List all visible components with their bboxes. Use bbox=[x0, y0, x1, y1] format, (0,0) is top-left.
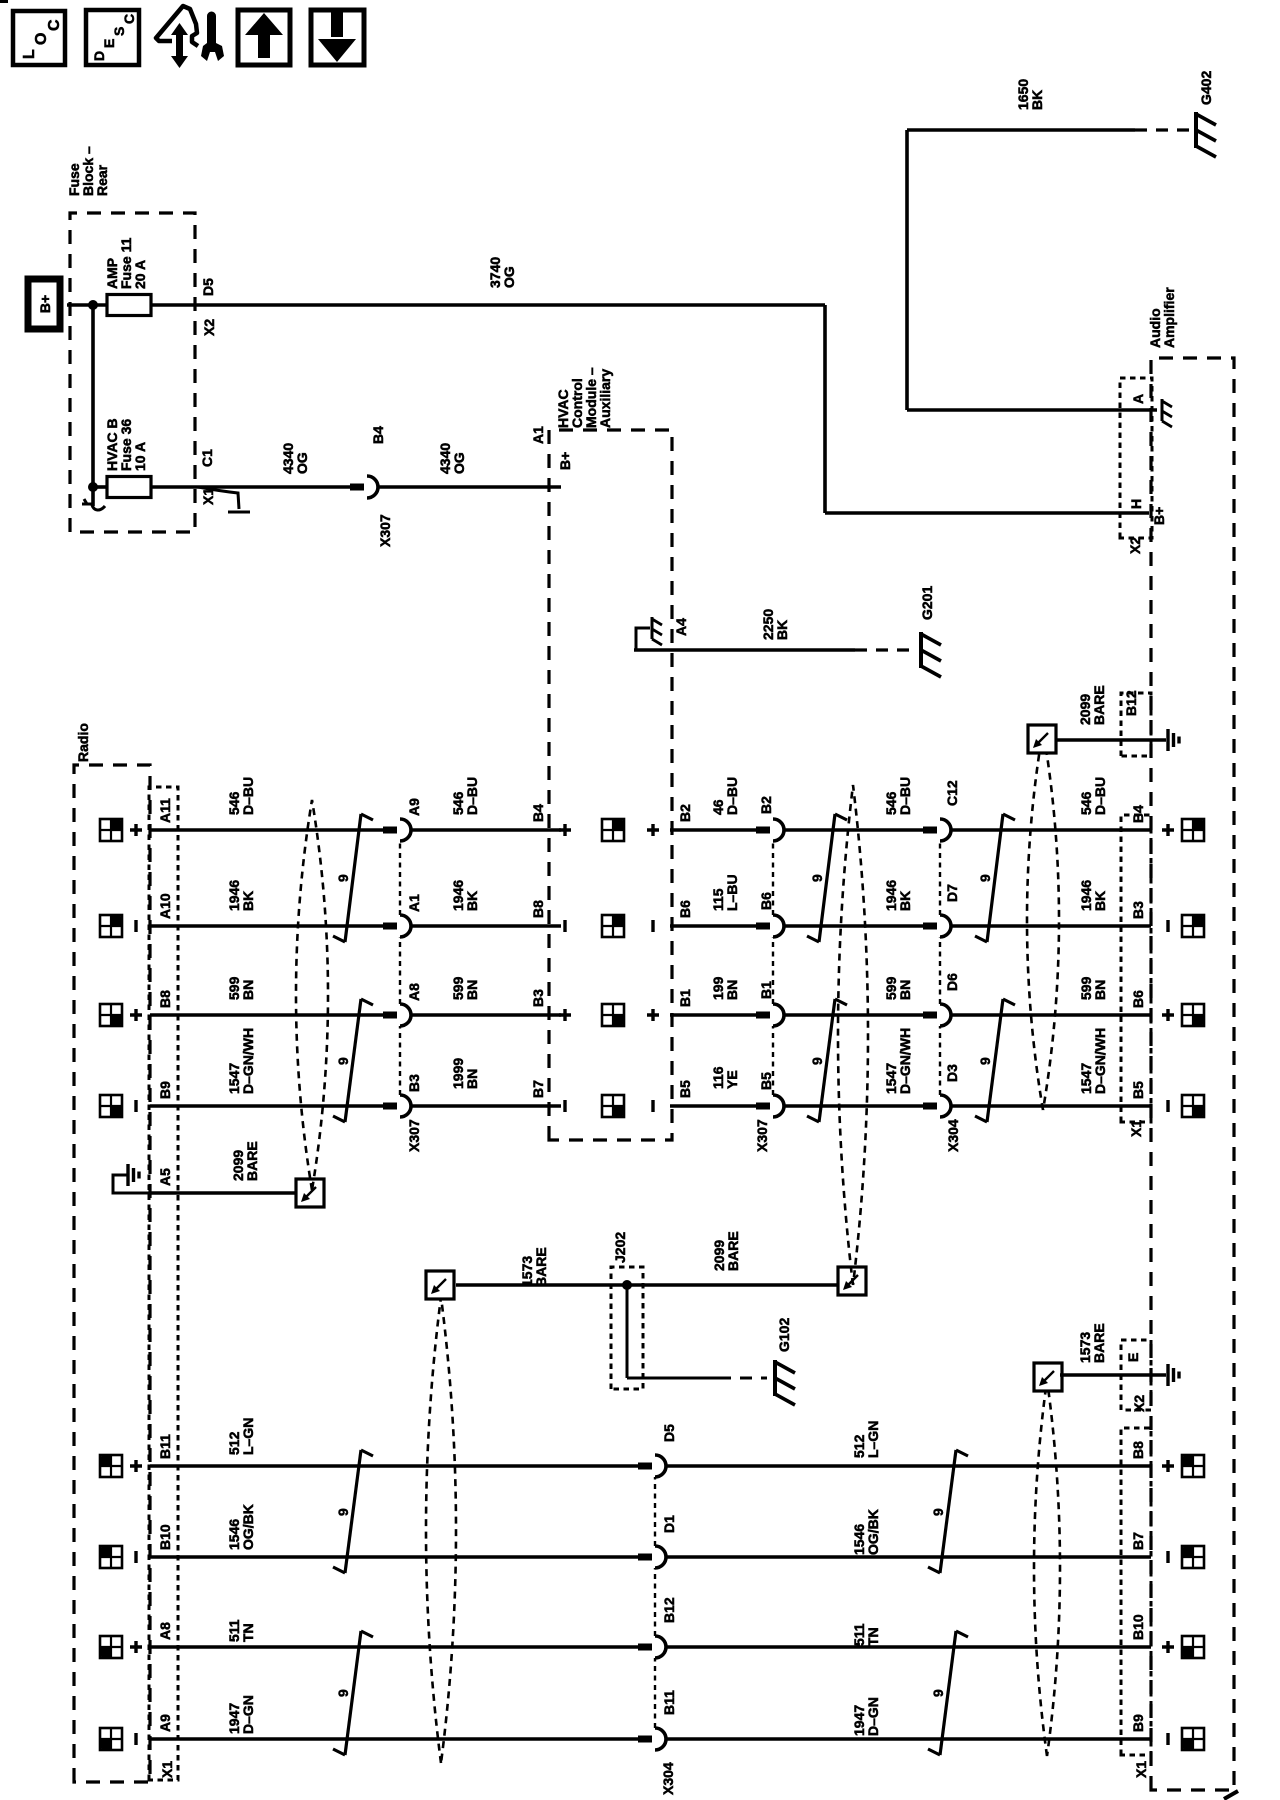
page corner mark bbox=[1224, 1791, 1238, 1799]
label wire 599 seg4 bbox=[883, 976, 913, 1000]
amp speaker icon A11 bbox=[1182, 819, 1204, 841]
connector X307 power bbox=[350, 476, 378, 498]
toolbar DESC icon box bbox=[86, 10, 139, 65]
svg-text:E: E bbox=[1125, 1353, 1141, 1362]
svg-text:X304: X304 bbox=[945, 1119, 961, 1152]
hvac A4 internal ground arm bbox=[636, 628, 650, 650]
radio speaker icon B9 bbox=[100, 1095, 122, 1117]
wire G102 tap dashed bbox=[719, 1377, 767, 1380]
label 1650 BK bbox=[1015, 79, 1045, 110]
svg-text:BARE: BARE bbox=[533, 1247, 549, 1287]
fuse HVAC B label bbox=[104, 418, 148, 471]
junction dot bus bbox=[88, 300, 98, 310]
label 2250 BK bbox=[760, 609, 790, 640]
twist 9 seg4 pair B2/B6 bbox=[807, 814, 847, 942]
label wire 599 seg1 bbox=[226, 976, 256, 1000]
shield splice S3 bbox=[838, 1267, 866, 1295]
toolbar adjust icon outline bbox=[156, 6, 198, 46]
label wire 1946 seg2 bbox=[450, 880, 480, 911]
wire J202 to S3 bbox=[627, 1283, 838, 1287]
connector X304b B12 bbox=[638, 1636, 666, 1658]
fuse block rear box bbox=[70, 213, 195, 532]
svg-text:X2: X2 bbox=[1127, 537, 1143, 554]
fusebox lead hook bbox=[198, 487, 239, 509]
wire 1573 BARE S2 to J202 bbox=[456, 1283, 627, 1287]
wire 1546 X304b to amp bbox=[666, 1555, 1151, 1559]
svg-text:X307: X307 bbox=[406, 1119, 422, 1152]
amp sign B11 bbox=[1162, 1460, 1174, 1472]
wire bus to HVAC fuse bbox=[93, 485, 107, 489]
amp speaker icon A8 bbox=[1182, 1636, 1204, 1658]
svg-text:BN: BN bbox=[1092, 980, 1108, 1000]
amp B12 earth ground bbox=[1168, 729, 1179, 751]
label wire 1546 segL bbox=[226, 1504, 256, 1550]
amp sign A11 bbox=[1162, 824, 1174, 836]
shield splice S5 bbox=[1034, 1363, 1062, 1391]
amp speaker icon B8 bbox=[1182, 1004, 1204, 1026]
label wire 46 seg3 bbox=[710, 777, 740, 815]
amp connector X1 left box bbox=[1121, 1428, 1151, 1755]
ground G102 symbol bbox=[775, 1360, 795, 1405]
wire 1947 A9 radio to X304b bbox=[150, 1737, 639, 1741]
amp speaker icon B10 bbox=[1182, 1546, 1204, 1568]
twist 9 seg5 pair C12/D7 bbox=[975, 814, 1015, 942]
radio sign B9 bbox=[134, 1100, 137, 1112]
wire 546 X307 to HVAC bbox=[411, 828, 561, 832]
wire 199 HVAC to X307b bbox=[670, 1013, 757, 1017]
label 2099 BARE S4 bbox=[1077, 685, 1107, 725]
wire 1546 B10 radio to X304b bbox=[150, 1555, 639, 1559]
svg-text:B5: B5 bbox=[758, 1072, 774, 1090]
connector X304a D3 bbox=[923, 1095, 951, 1117]
amp speaker icon B9 bbox=[1182, 1095, 1204, 1117]
hvac control module box bbox=[549, 430, 672, 1140]
ground G402 symbol bbox=[1196, 112, 1216, 157]
svg-text:D–BU: D–BU bbox=[1092, 777, 1108, 815]
amp pin A case ground bbox=[1162, 399, 1172, 427]
connector X304b link line bbox=[654, 1477, 656, 1728]
svg-text:B+: B+ bbox=[37, 295, 53, 313]
amp sign B8 bbox=[1162, 1009, 1174, 1021]
twist 9 seg4 pair B1/B5 bbox=[807, 999, 847, 1122]
svg-text:D–GN/WH: D–GN/WH bbox=[240, 1028, 256, 1094]
hvac sign top B9 bbox=[563, 1100, 566, 1112]
fuse block label bbox=[66, 146, 110, 196]
junction dot bus hvac bbox=[88, 482, 98, 492]
radio sign B8 bbox=[130, 1009, 142, 1021]
svg-text:BN: BN bbox=[724, 980, 740, 1000]
connector X304b B11 bbox=[638, 1728, 666, 1750]
svg-text:9: 9 bbox=[335, 1057, 351, 1065]
twist 9 segR pair B12/B11 bbox=[928, 1631, 968, 1755]
svg-text:B6: B6 bbox=[758, 892, 774, 910]
svg-text:L: L bbox=[21, 49, 38, 59]
amp connector X2-E box bbox=[1121, 1340, 1151, 1410]
wire 546 X307b to X304 bbox=[784, 828, 924, 832]
svg-text:X2: X2 bbox=[1131, 1395, 1147, 1412]
label wire 115 seg3 bbox=[710, 874, 740, 911]
svg-text:A8: A8 bbox=[157, 1622, 173, 1640]
wire 3740 OG to pin H bbox=[825, 511, 1149, 515]
connector X307a link line bbox=[399, 841, 401, 1095]
wire 512 B11 radio to X304b bbox=[150, 1464, 639, 1468]
wire 1650 BK dashed bbox=[1135, 128, 1189, 131]
svg-text:OG/BK: OG/BK bbox=[240, 1504, 256, 1550]
svg-text:D–BU: D–BU bbox=[724, 777, 740, 815]
svg-text:O: O bbox=[33, 33, 50, 45]
radio speaker icon B11 bbox=[100, 1455, 122, 1477]
connector X307b B1 bbox=[756, 1004, 784, 1026]
connector X307 A1 bbox=[383, 915, 411, 937]
amp sign A9 bbox=[1166, 1733, 1169, 1745]
svg-text:B5: B5 bbox=[677, 1080, 693, 1098]
wire 1573 BARE S5 to E bbox=[1060, 1373, 1166, 1377]
svg-text:9: 9 bbox=[809, 1057, 825, 1065]
ground G201 symbol bbox=[921, 632, 941, 677]
svg-text:D–BU: D–BU bbox=[897, 777, 913, 815]
svg-text:BARE: BARE bbox=[725, 1231, 741, 1271]
svg-text:9: 9 bbox=[809, 874, 825, 882]
svg-text:B8: B8 bbox=[1130, 1441, 1146, 1459]
wire 1650 BK solid bbox=[907, 128, 1135, 132]
bus wire bbox=[91, 305, 95, 506]
connector X304a link line bbox=[939, 841, 941, 1095]
shield lens E4 group A right bbox=[1027, 730, 1059, 1110]
svg-text:TN: TN bbox=[240, 1623, 256, 1642]
svg-text:A5: A5 bbox=[157, 1168, 173, 1186]
toolbar LOC icon box bbox=[13, 11, 65, 65]
label wire 546 seg4 bbox=[883, 777, 913, 815]
wire 46 HVAC to X307b bbox=[670, 828, 757, 832]
svg-text:Rear: Rear bbox=[94, 164, 110, 196]
label wire 546 seg1 bbox=[226, 777, 256, 815]
radio sign A9 bbox=[134, 1733, 137, 1745]
svg-text:X304: X304 bbox=[660, 1762, 676, 1795]
wire amp A to corner bbox=[907, 408, 1157, 412]
svg-text:YE: YE bbox=[724, 1070, 740, 1089]
svg-text:A4: A4 bbox=[673, 618, 689, 636]
radio speaker icon A9 bbox=[100, 1728, 122, 1750]
svg-text:D5: D5 bbox=[661, 1424, 677, 1442]
label 1573 BARE S2 bbox=[519, 1247, 549, 1287]
svg-text:B9: B9 bbox=[157, 1081, 173, 1099]
toolbar adjust icon arrow bbox=[171, 23, 188, 68]
wire 3740 OG horizontal bbox=[823, 305, 827, 513]
svg-text:B5: B5 bbox=[1130, 1081, 1146, 1099]
svg-text:B11: B11 bbox=[157, 1434, 173, 1459]
svg-text:B2: B2 bbox=[677, 804, 693, 822]
svg-text:B2: B2 bbox=[758, 796, 774, 814]
svg-text:L–GN: L–GN bbox=[865, 1421, 881, 1458]
radio box bbox=[74, 765, 150, 1782]
radio A5 earth ground bbox=[113, 1164, 150, 1193]
amp speaker icon A10 bbox=[1182, 915, 1204, 937]
svg-text:A9: A9 bbox=[157, 1714, 173, 1732]
svg-text:B12: B12 bbox=[661, 1597, 677, 1623]
shield lens E2 group B left bbox=[426, 1297, 456, 1763]
svg-text:C12: C12 bbox=[944, 780, 960, 806]
label wire 599 seg2 bbox=[450, 976, 480, 1000]
hvac speaker icon B9 bbox=[602, 1095, 624, 1117]
svg-text:D–GN/WH: D–GN/WH bbox=[897, 1028, 913, 1094]
amp connector B12 box bbox=[1121, 693, 1151, 756]
svg-text:D7: D7 bbox=[944, 884, 960, 902]
wire 2250 BK solid bbox=[672, 648, 855, 652]
amp speaker icon B11 bbox=[1182, 1455, 1204, 1477]
shield splice S2 bbox=[426, 1271, 454, 1299]
svg-text:B+: B+ bbox=[1151, 507, 1167, 525]
toolbar adjust icon wrench bbox=[201, 12, 224, 62]
svg-text:B12: B12 bbox=[1123, 690, 1139, 716]
svg-text:A11: A11 bbox=[157, 798, 173, 823]
radio speaker icon B10 bbox=[100, 1546, 122, 1568]
bus end curl bbox=[92, 505, 105, 510]
radio sign B10 bbox=[134, 1551, 137, 1563]
wire 115 HVAC to X307b bbox=[670, 924, 757, 928]
svg-text:B1: B1 bbox=[677, 989, 693, 1007]
radio sign A8 bbox=[130, 1641, 142, 1653]
svg-text:BN: BN bbox=[464, 1069, 480, 1089]
svg-text:OG: OG bbox=[501, 266, 517, 288]
shield lens E1 group A seg1 bbox=[296, 800, 328, 1190]
svg-text:E: E bbox=[101, 39, 117, 48]
connector X307b B2 bbox=[756, 819, 784, 841]
svg-text:9: 9 bbox=[335, 1508, 351, 1516]
wire 599 X304 to amp bbox=[951, 1013, 1151, 1017]
svg-text:D5: D5 bbox=[200, 278, 216, 296]
wire 1999 X307 to HVAC bbox=[411, 1104, 561, 1108]
wire 1547 B9 radio to X307 bbox=[150, 1104, 384, 1108]
shield lens E5 group B right bbox=[1034, 1380, 1060, 1756]
wire B+ to bus bbox=[67, 303, 107, 307]
svg-text:X307: X307 bbox=[377, 514, 393, 547]
svg-text:G102: G102 bbox=[776, 1318, 792, 1352]
label wire 546 seg5 bbox=[1078, 777, 1108, 815]
hvac sign bottom B9 bbox=[651, 1100, 654, 1112]
svg-text:BK: BK bbox=[1092, 891, 1108, 911]
wire 546 X304 to amp bbox=[951, 828, 1151, 832]
svg-text:Amplifier: Amplifier bbox=[1161, 287, 1177, 348]
B+ symbol box bbox=[28, 279, 60, 329]
label wire 1547 seg4 bbox=[883, 1028, 913, 1094]
svg-text:X307: X307 bbox=[754, 1119, 770, 1152]
svg-text:D3: D3 bbox=[944, 1064, 960, 1082]
label wire 1946 seg1 bbox=[226, 880, 256, 911]
svg-text:9: 9 bbox=[977, 874, 993, 882]
svg-text:X1: X1 bbox=[1133, 1761, 1149, 1778]
label wire 1946 seg4 bbox=[883, 880, 913, 911]
svg-text:D–BU: D–BU bbox=[240, 777, 256, 815]
svg-text:C: C bbox=[46, 19, 63, 31]
wire 116 HVAC to X307b bbox=[670, 1104, 757, 1108]
amp sign B10 bbox=[1166, 1551, 1169, 1563]
connector X307b link line bbox=[772, 841, 774, 1095]
amp sign A8 bbox=[1162, 1641, 1174, 1653]
label 4340 OG upper bbox=[280, 443, 310, 474]
label 3740 OG bbox=[487, 257, 517, 288]
label wire 1947 segL bbox=[226, 1695, 256, 1734]
svg-text:9: 9 bbox=[335, 1689, 351, 1697]
audio amplifier label bbox=[1147, 287, 1177, 348]
svg-text:X1: X1 bbox=[159, 1761, 175, 1778]
wire 3740 OG vertical bbox=[151, 303, 825, 307]
svg-text:OG: OG bbox=[451, 452, 467, 474]
hvac sign bottom A11 bbox=[647, 824, 659, 836]
toolbar up icon box bbox=[238, 10, 290, 65]
twist 9 segL pair B11/B10 bbox=[333, 1450, 373, 1573]
svg-text:G201: G201 bbox=[919, 586, 935, 620]
wire 599 X307 to HVAC bbox=[411, 1013, 561, 1017]
wire 4340 OG upper bbox=[151, 485, 351, 489]
hvac speaker icon A10 bbox=[602, 915, 624, 937]
radio connector X1 box bbox=[149, 787, 178, 1780]
svg-text:C: C bbox=[121, 14, 137, 24]
label wire 512 segL bbox=[226, 1418, 256, 1455]
svg-text:10 A: 10 A bbox=[132, 442, 148, 471]
svg-text:A: A bbox=[1130, 394, 1146, 404]
radio speaker icon A8 bbox=[100, 1636, 122, 1658]
svg-text:A1: A1 bbox=[530, 426, 546, 444]
svg-text:D6: D6 bbox=[944, 973, 960, 991]
svg-text:9: 9 bbox=[930, 1508, 946, 1516]
svg-text:9: 9 bbox=[977, 1057, 993, 1065]
svg-text:B6: B6 bbox=[1130, 990, 1146, 1008]
radio speaker icon A10 bbox=[100, 915, 122, 937]
svg-text:B4: B4 bbox=[530, 804, 546, 822]
svg-text:BK: BK bbox=[240, 891, 256, 911]
svg-text:B7: B7 bbox=[530, 1080, 546, 1098]
hvac label bbox=[555, 367, 613, 428]
hvac A4 case ground bbox=[652, 617, 662, 645]
radio speaker icon B8 bbox=[100, 1004, 122, 1026]
wire 1946 X304 to amp bbox=[951, 924, 1151, 928]
svg-text:A1: A1 bbox=[406, 894, 422, 912]
hvac sign top B8 bbox=[559, 1009, 571, 1021]
svg-text:B4: B4 bbox=[370, 426, 386, 444]
svg-text:D–BU: D–BU bbox=[464, 777, 480, 815]
svg-text:BK: BK bbox=[464, 891, 480, 911]
svg-text:B3: B3 bbox=[530, 989, 546, 1007]
connector X304a C12 bbox=[923, 819, 951, 841]
wire 599 B8 radio to X307 bbox=[150, 1013, 384, 1017]
wire 2099 BARE S4 to B12 bbox=[1057, 738, 1166, 742]
label wire 511 segL bbox=[226, 1619, 256, 1642]
amp sign A10 bbox=[1166, 920, 1169, 932]
svg-text:X1: X1 bbox=[1128, 1120, 1144, 1137]
svg-text:OG/BK: OG/BK bbox=[865, 1509, 881, 1555]
svg-text:B3: B3 bbox=[406, 1074, 422, 1092]
connector X304a D6 bbox=[923, 1004, 951, 1026]
shield lens E3 group A mid bbox=[838, 785, 868, 1285]
svg-text:Radio: Radio bbox=[75, 723, 91, 762]
scan corner artifact bbox=[0, 0, 8, 3]
wire 1946 X307 to HVAC bbox=[411, 924, 561, 928]
svg-text:B8: B8 bbox=[157, 990, 173, 1008]
svg-text:B10: B10 bbox=[1130, 1614, 1146, 1640]
label wire 1947 segR bbox=[851, 1697, 881, 1736]
amp sign B9 bbox=[1166, 1100, 1169, 1112]
wire 2099 BARE A5 drain bbox=[150, 1191, 298, 1195]
wire 4340 OG lower bbox=[378, 485, 561, 489]
svg-text:BN: BN bbox=[464, 980, 480, 1000]
hvac sign top A10 bbox=[563, 920, 566, 932]
svg-text:20 A: 20 A bbox=[132, 260, 148, 289]
svg-text:D–GN: D–GN bbox=[865, 1697, 881, 1736]
label wire 511 segR bbox=[851, 1623, 881, 1646]
label wire 1547 seg5 bbox=[1078, 1028, 1108, 1094]
connector X307 A8 bbox=[383, 1004, 411, 1026]
connector X307 A9 bbox=[383, 819, 411, 841]
wire G402 horizontal bbox=[905, 130, 909, 410]
label 1573 BARE S5 bbox=[1077, 1323, 1107, 1363]
svg-text:S: S bbox=[111, 27, 127, 36]
label 4340 OG lower bbox=[437, 443, 467, 474]
shield splice S1 bbox=[296, 1179, 324, 1207]
wire 1547 X307b to X304 bbox=[784, 1104, 924, 1108]
svg-text:L–GN: L–GN bbox=[240, 1418, 256, 1455]
radio sign A11 bbox=[130, 824, 142, 836]
hvac sign top A11 bbox=[559, 824, 571, 836]
svg-text:B1: B1 bbox=[758, 981, 774, 999]
svg-text:B3: B3 bbox=[1130, 901, 1146, 919]
svg-text:D1: D1 bbox=[661, 1515, 677, 1533]
svg-text:TN: TN bbox=[865, 1627, 881, 1646]
svg-text:D–GN: D–GN bbox=[240, 1695, 256, 1734]
svg-text:B9: B9 bbox=[1130, 1714, 1146, 1732]
amp connector X1 right box bbox=[1121, 815, 1151, 1122]
svg-text:D–GN/WH: D–GN/WH bbox=[1092, 1028, 1108, 1094]
svg-text:C1: C1 bbox=[199, 449, 215, 467]
svg-text:BK: BK bbox=[774, 620, 790, 640]
wire J202 tap horizontal bbox=[626, 1285, 629, 1378]
connector X307b B6 bbox=[756, 915, 784, 937]
svg-text:Auxiliary: Auxiliary bbox=[597, 369, 613, 428]
toolbar down icon box bbox=[311, 10, 364, 65]
svg-text:9: 9 bbox=[335, 874, 351, 882]
wire 1947 X304b to amp bbox=[666, 1737, 1151, 1741]
label wire 199 seg3 bbox=[710, 976, 740, 1000]
svg-text:B7: B7 bbox=[1130, 1532, 1146, 1550]
wire 1946 X307b to X304 bbox=[784, 924, 924, 928]
label wire 116 seg3 bbox=[710, 1066, 740, 1089]
svg-text:B6: B6 bbox=[677, 900, 693, 918]
svg-text:A9: A9 bbox=[406, 798, 422, 816]
svg-text:BN: BN bbox=[240, 980, 256, 1000]
svg-text:OG: OG bbox=[294, 452, 310, 474]
radio sign B11 bbox=[130, 1460, 142, 1472]
wire G102 tap solid bbox=[627, 1377, 719, 1380]
svg-text:BARE: BARE bbox=[1091, 685, 1107, 725]
wire 511 A8 radio to X304b bbox=[150, 1645, 639, 1649]
svg-text:A8: A8 bbox=[406, 983, 422, 1001]
twist 9 segR pair D5/D1 bbox=[928, 1450, 968, 1573]
svg-text:H: H bbox=[1128, 499, 1144, 509]
hvac speaker icon B8 bbox=[602, 1004, 624, 1026]
twist 9 seg5 pair D6/D3 bbox=[975, 999, 1015, 1122]
wire 599 X307b to X304 bbox=[784, 1013, 924, 1017]
svg-text:L–BU: L–BU bbox=[724, 874, 740, 911]
label wire 1546 segR bbox=[851, 1509, 881, 1555]
svg-text:9: 9 bbox=[930, 1689, 946, 1697]
fuse AMP label bbox=[104, 237, 148, 289]
hvac sign bottom A10 bbox=[651, 920, 654, 932]
junction dot J202 bbox=[622, 1280, 632, 1290]
connector X307b B5 bbox=[756, 1095, 784, 1117]
amp connector X2-HA box bbox=[1120, 378, 1152, 538]
connector X304a D7 bbox=[923, 915, 951, 937]
svg-text:BARE: BARE bbox=[244, 1141, 260, 1181]
svg-text:B8: B8 bbox=[530, 900, 546, 918]
